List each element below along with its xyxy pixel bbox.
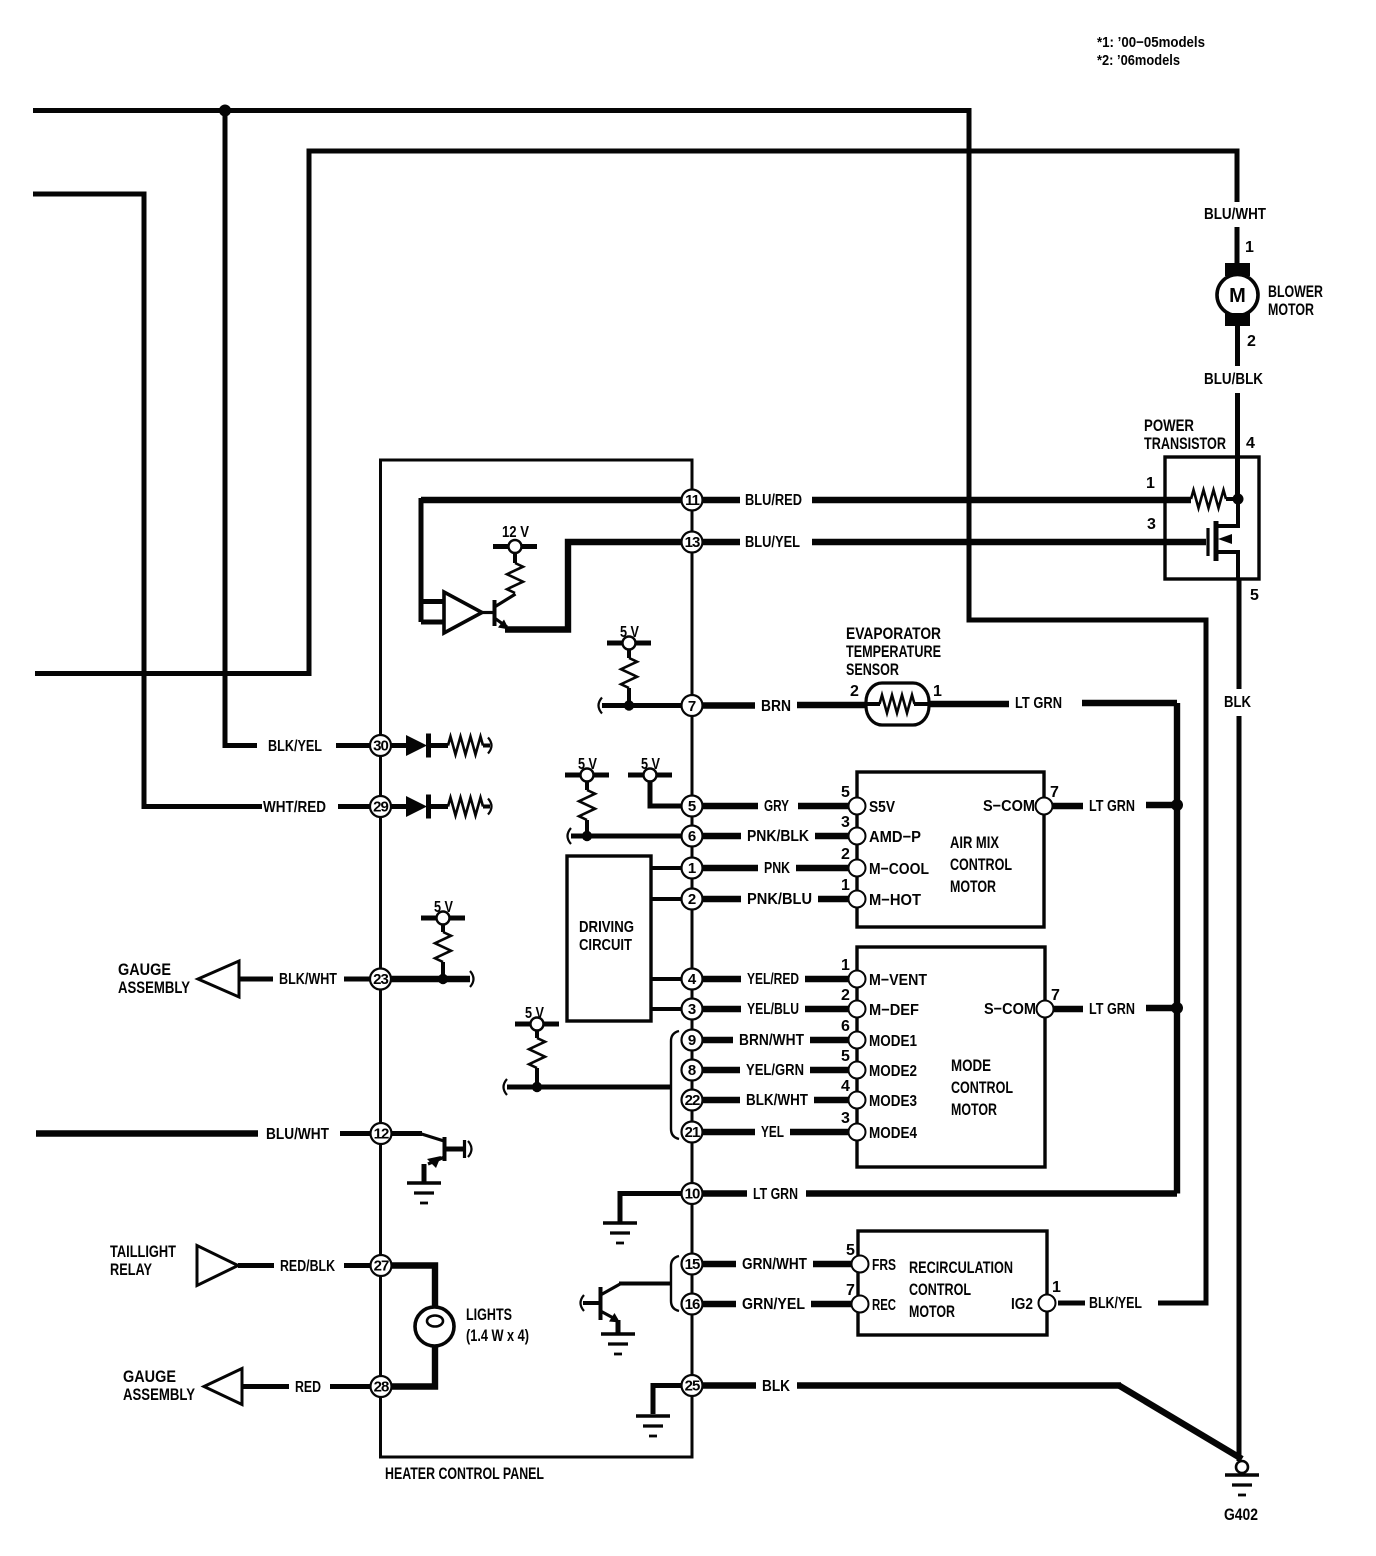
supply 5V d bbox=[421, 912, 465, 925]
wire branch to pin 30 bbox=[225, 111, 257, 746]
wire triangle2 to RED bbox=[242, 1384, 289, 1389]
driving circuit box U3 bbox=[567, 856, 651, 1021]
svg-text:M−VENT: M−VENT bbox=[869, 972, 927, 989]
wire Q2 emitter to ground bbox=[422, 1164, 427, 1182]
pin 8 bbox=[682, 1060, 703, 1081]
pin 11 bbox=[682, 490, 703, 511]
supply 5V a bbox=[607, 637, 651, 650]
Q2 collector end bar bbox=[463, 1140, 466, 1158]
wire IG2 to BLK/YEL bbox=[1058, 1301, 1085, 1306]
svg-text:4: 4 bbox=[1246, 435, 1255, 452]
pin MODE1 bbox=[849, 1032, 866, 1049]
svg-text:7: 7 bbox=[1051, 987, 1060, 1004]
svg-text:BLK/WHT: BLK/WHT bbox=[746, 1092, 808, 1109]
svg-text:5: 5 bbox=[841, 1048, 850, 1065]
svg-text:11: 11 bbox=[685, 492, 700, 509]
wire R6 end bbox=[483, 744, 490, 748]
supply 5V c bbox=[628, 769, 672, 782]
svg-text:1: 1 bbox=[688, 860, 696, 877]
svg-text:RED/BLK: RED/BLK bbox=[280, 1258, 335, 1275]
svg-text:IG2: IG2 bbox=[1011, 1296, 1033, 1313]
gauge assembly triangle bbox=[198, 961, 239, 997]
wire resistor to drain node bbox=[1226, 497, 1238, 501]
gauge assembly triangle 2 bbox=[204, 1369, 242, 1405]
wire WHT/RED into pin 29 bbox=[338, 804, 370, 809]
LT GRN bus vertical bbox=[1174, 703, 1180, 1194]
pin 30 bbox=[370, 735, 391, 756]
svg-text:12: 12 bbox=[374, 1126, 389, 1143]
ground G402 bbox=[1225, 1475, 1259, 1495]
diode D2 bbox=[406, 795, 429, 819]
wire pin13 row BLU/YEL bbox=[702, 539, 1206, 545]
svg-text:4: 4 bbox=[688, 971, 697, 988]
pin 25 bbox=[682, 1375, 703, 1396]
pin REC bbox=[852, 1296, 869, 1313]
wire 5V d stem bbox=[441, 925, 445, 933]
resistor R2 bbox=[621, 658, 637, 688]
Q2 base bar bbox=[443, 1137, 447, 1161]
transistor Q1 emitter bbox=[495, 618, 508, 627]
svg-text:LT GRN: LT GRN bbox=[753, 1186, 798, 1203]
supply 12V bbox=[493, 540, 537, 553]
sensor resistor element bbox=[880, 695, 915, 713]
svg-text:HEATER CONTROL PANEL: HEATER CONTROL PANEL bbox=[385, 1464, 544, 1483]
wire pin4 row YEL/RED bbox=[702, 976, 849, 982]
mosfet source bbox=[1216, 552, 1238, 579]
wire pin5 row GRY bbox=[702, 803, 849, 809]
svg-text:21: 21 bbox=[685, 1124, 700, 1141]
svg-text:LT GRN: LT GRN bbox=[1089, 798, 1135, 815]
resistor R7 bbox=[448, 798, 483, 816]
junction pin23 node bbox=[438, 974, 448, 984]
resistor R1 12V bbox=[507, 563, 523, 593]
pin M-VENT bbox=[849, 971, 866, 988]
pin 3 bbox=[682, 999, 703, 1020]
pin S-COM mode bbox=[1037, 1001, 1054, 1018]
wire pin10 row LT GRN bbox=[702, 1190, 1177, 1196]
bracket pins 9-21 bbox=[671, 1031, 679, 1139]
wire pin6 left segment bbox=[571, 834, 682, 839]
svg-text:3: 3 bbox=[841, 1110, 850, 1127]
svg-text:7: 7 bbox=[1050, 784, 1059, 801]
svg-text:LT GRN: LT GRN bbox=[1089, 1001, 1135, 1018]
svg-text:CIRCUIT: CIRCUIT bbox=[579, 937, 632, 954]
svg-text:4: 4 bbox=[841, 1078, 850, 1095]
wire pin11 to comparator input bbox=[421, 497, 682, 503]
pin IG2 bbox=[1039, 1295, 1056, 1312]
wire comparator input drop bbox=[419, 498, 424, 622]
wire pin27 to lamp bbox=[392, 1266, 435, 1309]
svg-text:22: 22 bbox=[685, 1092, 700, 1109]
svg-text:RELAY: RELAY bbox=[110, 1260, 152, 1279]
pin S-COM air mix bbox=[1036, 798, 1053, 815]
svg-text:BLOWER: BLOWER bbox=[1268, 282, 1323, 301]
pin 23 bbox=[370, 969, 391, 990]
wire pin7 left segment bbox=[602, 703, 682, 708]
wire pin9 row BRN/WHT bbox=[702, 1037, 849, 1043]
wire pin25 to ground bbox=[653, 1383, 682, 1414]
svg-text:13: 13 bbox=[685, 534, 700, 551]
wire RED/BLK to pin27 bbox=[344, 1263, 371, 1268]
mosfet drain bbox=[1216, 499, 1238, 526]
air mix control motor box M1 bbox=[857, 772, 1044, 927]
wire BLK/WHT to pin23 bbox=[344, 977, 370, 982]
svg-text:AMD−P: AMD−P bbox=[869, 829, 921, 846]
svg-text:YEL/RED: YEL/RED bbox=[747, 971, 799, 988]
mosfet arrow bbox=[1218, 534, 1232, 544]
svg-text:MODE3: MODE3 bbox=[869, 1093, 917, 1110]
junction LT GRN bus 1 bbox=[1171, 799, 1183, 811]
svg-text:5: 5 bbox=[841, 784, 850, 801]
wire lamp to pin28 bbox=[392, 1345, 435, 1387]
wire pin21 row YEL bbox=[702, 1129, 849, 1135]
svg-text:1: 1 bbox=[1245, 239, 1254, 256]
wire pin1 row PNK bbox=[702, 865, 849, 871]
svg-text:2: 2 bbox=[841, 846, 850, 863]
Q3 base bar bbox=[599, 1287, 603, 1320]
svg-text:27: 27 bbox=[374, 1258, 389, 1275]
svg-text:TRANSISTOR: TRANSISTOR bbox=[1144, 434, 1226, 453]
pin 16 bbox=[682, 1294, 703, 1315]
pin 10 bbox=[682, 1183, 703, 1204]
Q2 emitter arrow bbox=[427, 1156, 441, 1168]
pin 12 bbox=[371, 1123, 392, 1144]
wire Q3 base bbox=[583, 1301, 600, 1305]
svg-text:1: 1 bbox=[1146, 475, 1155, 492]
ground Q2 bbox=[407, 1183, 441, 1203]
svg-text:MOTOR: MOTOR bbox=[909, 1302, 955, 1321]
svg-text:25: 25 bbox=[685, 1378, 700, 1395]
wire pin7 row BRN bbox=[702, 702, 866, 709]
wire BLU/WHT feed to pin 12 bbox=[36, 1130, 258, 1136]
transistor Q1 collector bbox=[495, 594, 516, 607]
svg-text:BLK/WHT: BLK/WHT bbox=[279, 971, 337, 988]
svg-text:MOTOR: MOTOR bbox=[950, 877, 996, 896]
svg-text:MODE: MODE bbox=[951, 1056, 991, 1075]
svg-text:YEL: YEL bbox=[761, 1124, 784, 1141]
tick pin7 wire end bbox=[599, 698, 603, 714]
resistor R3 bbox=[579, 790, 595, 820]
wire pin15 row GRN/WHT bbox=[702, 1261, 852, 1267]
svg-text:GRY: GRY bbox=[764, 798, 789, 815]
pin 29 bbox=[370, 796, 391, 817]
wire LT GRN to bus bbox=[1082, 700, 1177, 706]
junction LT GRN bus 2 bbox=[1171, 1002, 1183, 1014]
svg-text:BLK/YEL: BLK/YEL bbox=[268, 738, 322, 755]
supply 5V e bbox=[515, 1018, 559, 1031]
blower motor M bbox=[1217, 275, 1258, 316]
tick R6 end bbox=[488, 738, 492, 754]
tick Q3 base bbox=[581, 1295, 585, 1311]
svg-text:BLU/YEL: BLU/YEL bbox=[745, 534, 800, 551]
svg-text:5: 5 bbox=[1250, 587, 1259, 604]
wire Q3 emitter to ground bbox=[616, 1320, 621, 1333]
svg-text:3: 3 bbox=[1147, 516, 1156, 533]
bracket pins 15-16 bbox=[671, 1256, 679, 1311]
tick Q2 collector bbox=[468, 1141, 472, 1157]
tick bracket wire end bbox=[504, 1079, 508, 1095]
wire sensor to LT GRN bbox=[929, 701, 1009, 707]
svg-text:FRS: FRS bbox=[872, 1257, 896, 1274]
svg-text:ASSEMBLY: ASSEMBLY bbox=[118, 978, 191, 997]
taillight relay triangle bbox=[197, 1246, 238, 1286]
svg-text:SENSOR: SENSOR bbox=[846, 660, 899, 679]
ground G402 circle bbox=[1236, 1461, 1248, 1473]
wire BLK diagonal to G402 bbox=[1119, 1386, 1242, 1460]
pin 5 bbox=[682, 796, 703, 817]
svg-text:PNK/BLK: PNK/BLK bbox=[747, 828, 809, 845]
svg-text:7: 7 bbox=[688, 698, 696, 715]
svg-text:1: 1 bbox=[1052, 1279, 1061, 1296]
wire pin23 right segment bbox=[391, 976, 470, 982]
wire DC to pin2 bbox=[651, 897, 682, 901]
resistor R8 bbox=[435, 932, 451, 962]
Q2 emitter bbox=[428, 1157, 445, 1164]
wire Q1 emitter to pin13 bbox=[505, 542, 682, 630]
svg-text:BLU/BLK: BLU/BLK bbox=[1204, 371, 1263, 388]
svg-text:BLU/WHT: BLU/WHT bbox=[1204, 206, 1266, 223]
pin 9 bbox=[682, 1030, 703, 1051]
svg-text:9: 9 bbox=[688, 1032, 696, 1049]
wire 5V a stem bbox=[627, 650, 631, 659]
svg-text:12 V: 12 V bbox=[502, 524, 529, 541]
wire R8 to node bbox=[441, 962, 445, 979]
ground pin10 bbox=[603, 1223, 637, 1243]
pin MODE2 bbox=[849, 1062, 866, 1079]
svg-text:REC: REC bbox=[872, 1297, 896, 1314]
supply 5V b bbox=[565, 769, 609, 782]
wire left feed to pin 29 bbox=[33, 194, 262, 807]
svg-text:6: 6 bbox=[688, 828, 696, 845]
svg-text:CONTROL: CONTROL bbox=[951, 1078, 1013, 1097]
wire pin16 row GRN/YEL bbox=[702, 1301, 852, 1307]
svg-text:RED: RED bbox=[295, 1379, 321, 1396]
wire pin6 row PNK/BLK bbox=[702, 833, 849, 839]
pin M-DEF bbox=[849, 1001, 866, 1018]
svg-text:BLU/RED: BLU/RED bbox=[745, 492, 802, 509]
pin 2 bbox=[682, 889, 703, 910]
svg-text:23: 23 bbox=[373, 971, 388, 988]
junction pin6 node bbox=[582, 831, 592, 841]
sensor body RT1 bbox=[866, 683, 929, 725]
pin AMD-P bbox=[849, 828, 866, 845]
wire DC to pin3 bbox=[651, 1007, 682, 1011]
svg-text:30: 30 bbox=[373, 738, 388, 755]
svg-text:TAILLIGHT: TAILLIGHT bbox=[110, 1242, 176, 1261]
op-amp U1 triangle bbox=[444, 592, 482, 633]
svg-text:15: 15 bbox=[685, 1256, 700, 1273]
ground Q3 bbox=[601, 1334, 635, 1354]
pin 27 bbox=[371, 1255, 392, 1276]
svg-text:BLK/YEL: BLK/YEL bbox=[1089, 1295, 1142, 1312]
svg-text:BRN/WHT: BRN/WHT bbox=[739, 1032, 804, 1049]
wire D1 to resistor bbox=[431, 743, 448, 748]
pin S5V bbox=[849, 798, 866, 815]
wire pin30 to diode bbox=[391, 743, 406, 748]
svg-text:3: 3 bbox=[841, 814, 850, 831]
pin 28 bbox=[371, 1376, 392, 1397]
wire 12V stem bbox=[513, 553, 517, 563]
svg-text:CONTROL: CONTROL bbox=[950, 855, 1012, 874]
svg-text:*1: ’00−05models: *1: ’00−05models bbox=[1097, 34, 1205, 51]
svg-text:EVAPORATOR: EVAPORATOR bbox=[846, 624, 941, 643]
tick pin23 wire end bbox=[470, 971, 474, 987]
pin M-COOL bbox=[849, 860, 866, 877]
wire apex to base bbox=[482, 611, 494, 614]
svg-text:2: 2 bbox=[688, 891, 696, 908]
wire pin2 row PNK/BLU bbox=[702, 896, 849, 902]
wire LT GRN2 to bus junction bbox=[1146, 1005, 1177, 1011]
pin 15 bbox=[682, 1254, 703, 1275]
junction bracket node bbox=[532, 1082, 542, 1092]
sensor interior leads bbox=[866, 702, 929, 706]
pin 6 bbox=[682, 826, 703, 847]
wire RED to pin28 bbox=[330, 1384, 371, 1389]
svg-text:6: 6 bbox=[841, 1018, 850, 1035]
tick pin6 wire end bbox=[568, 828, 572, 844]
svg-text:BRN: BRN bbox=[761, 698, 791, 715]
wire 5V e stem bbox=[535, 1031, 539, 1039]
wire triangle to BLK/WHT bbox=[239, 977, 273, 982]
wire R2 to node bbox=[627, 688, 631, 706]
Q1 emitter arrow bbox=[498, 620, 509, 630]
svg-text:2: 2 bbox=[841, 987, 850, 1004]
svg-text:LT GRN: LT GRN bbox=[1015, 695, 1062, 712]
svg-text:PNK/BLU: PNK/BLU bbox=[747, 891, 812, 908]
Q3 emitter bbox=[601, 1311, 618, 1320]
wire pin29 to diode bbox=[391, 804, 406, 809]
svg-text:MODE4: MODE4 bbox=[869, 1125, 917, 1142]
junction drain node bbox=[1233, 494, 1244, 505]
diode D1 bbox=[406, 734, 429, 758]
svg-text:BLU/WHT: BLU/WHT bbox=[266, 1126, 329, 1143]
pin 1 bbox=[682, 858, 703, 879]
pin 21 bbox=[682, 1122, 703, 1143]
svg-text:1: 1 bbox=[841, 877, 850, 894]
motor terminal top bbox=[1225, 263, 1250, 276]
ground pin25 bbox=[636, 1416, 670, 1436]
svg-text:MODE2: MODE2 bbox=[869, 1063, 917, 1080]
svg-text:GAUGE: GAUGE bbox=[123, 1367, 176, 1386]
svg-text:16: 16 bbox=[685, 1296, 700, 1313]
svg-text:2: 2 bbox=[1247, 333, 1256, 350]
recirculation control motor box M3 bbox=[858, 1231, 1047, 1335]
mosfet gate bar bbox=[1206, 528, 1209, 556]
wire LT GRN to bus junction bbox=[1146, 802, 1177, 808]
wire DC to pin1 bbox=[651, 866, 682, 870]
wire pin25 row BLK bbox=[703, 1382, 1121, 1388]
svg-text:G402: G402 bbox=[1224, 1505, 1258, 1524]
svg-text:GRN/YEL: GRN/YEL bbox=[742, 1296, 805, 1313]
svg-text:ASSEMBLY: ASSEMBLY bbox=[123, 1385, 196, 1404]
resistor in power transistor bbox=[1191, 490, 1226, 508]
svg-text:S−COM: S−COM bbox=[984, 1001, 1036, 1018]
Q2 base lead bbox=[420, 1134, 444, 1142]
svg-text:MOTOR: MOTOR bbox=[1268, 300, 1314, 319]
svg-text:RECIRCULATION: RECIRCULATION bbox=[909, 1258, 1013, 1277]
wire into pin 12 bbox=[340, 1131, 371, 1136]
lamp filament bbox=[427, 1316, 443, 1327]
wire R7 end bbox=[483, 805, 490, 809]
svg-text:M−COOL: M−COOL bbox=[869, 861, 929, 878]
wire top feed to IG2 bus bbox=[33, 111, 1206, 1304]
Q3 collector bbox=[601, 1284, 622, 1296]
Q2 collector bbox=[445, 1147, 465, 1152]
power transistor box U2 bbox=[1165, 457, 1259, 579]
svg-text:YEL/GRN: YEL/GRN bbox=[746, 1062, 804, 1079]
wire pin22 row BLK/WHT bbox=[702, 1097, 849, 1103]
wire motor to power transistor bbox=[1235, 326, 1240, 460]
lamp LIGHTS bbox=[415, 1307, 454, 1346]
wire pin10 to ground bbox=[620, 1191, 682, 1222]
wire BLU/WHT feed to blower motor bbox=[35, 151, 1237, 674]
wire 5V to bracket bbox=[507, 1085, 671, 1090]
tick R7 end bbox=[488, 799, 492, 815]
svg-text:S5V: S5V bbox=[869, 799, 895, 816]
svg-text:LIGHTS: LIGHTS bbox=[466, 1305, 512, 1324]
wire pin3 row YEL/BLU bbox=[702, 1006, 849, 1012]
wire S-COM2 to LT GRN bbox=[1054, 1006, 1083, 1012]
mosfet channel bar bbox=[1214, 521, 1219, 561]
svg-text:WHT/RED: WHT/RED bbox=[263, 799, 326, 816]
pin 13 bbox=[682, 532, 703, 553]
pin M-HOT bbox=[849, 891, 866, 908]
wire BLK bus to G402 bbox=[1237, 579, 1242, 1461]
svg-text:M−HOT: M−HOT bbox=[869, 892, 921, 909]
wire pin12 to Q2 bbox=[392, 1131, 423, 1136]
pin 22 bbox=[682, 1090, 703, 1111]
svg-text:CONTROL: CONTROL bbox=[909, 1280, 971, 1299]
svg-text:1: 1 bbox=[841, 957, 850, 974]
Q3 emitter arrow bbox=[609, 1313, 620, 1323]
svg-text:MODE1: MODE1 bbox=[869, 1033, 917, 1050]
svg-text:29: 29 bbox=[373, 799, 388, 816]
svg-text:BLK: BLK bbox=[762, 1378, 790, 1395]
svg-text:PNK: PNK bbox=[764, 860, 790, 877]
wire motor feed into box bbox=[1235, 457, 1240, 499]
svg-text:5: 5 bbox=[688, 798, 696, 815]
svg-text:M: M bbox=[1229, 285, 1246, 307]
svg-text:(1.4 W x 4): (1.4 W x 4) bbox=[466, 1326, 529, 1345]
wire S-COM to LT GRN bbox=[1053, 803, 1083, 809]
pin MODE4 bbox=[849, 1124, 866, 1141]
svg-text:M−DEF: M−DEF bbox=[869, 1002, 919, 1019]
wire pin8 row YEL/GRN bbox=[702, 1067, 849, 1073]
wire Q3 collector to bracket bbox=[619, 1282, 671, 1286]
wire BLK/YEL into pin 30 bbox=[336, 743, 370, 748]
svg-text:TEMPERATURE: TEMPERATURE bbox=[846, 642, 941, 661]
svg-text:2: 2 bbox=[850, 683, 859, 700]
pin MODE3 bbox=[849, 1092, 866, 1109]
svg-text:7: 7 bbox=[846, 1282, 855, 1299]
svg-text:GAUGE: GAUGE bbox=[118, 960, 171, 979]
junction pin7 node bbox=[624, 700, 634, 710]
wire triangle to RED/BLK bbox=[238, 1263, 274, 1268]
svg-text:BLK: BLK bbox=[1224, 694, 1251, 711]
pin 7 bbox=[682, 695, 703, 716]
svg-text:S−COM: S−COM bbox=[983, 798, 1035, 815]
comparator input stubs bbox=[421, 602, 444, 623]
wire DC to pin4 bbox=[651, 977, 682, 981]
svg-text:28: 28 bbox=[374, 1379, 389, 1396]
mode control motor box M2 bbox=[857, 947, 1045, 1167]
junction top feed bbox=[219, 105, 231, 117]
HEATER CONTROL PANEL box bbox=[381, 460, 693, 1457]
svg-text:YEL/BLU: YEL/BLU bbox=[747, 1001, 799, 1018]
wire 5V b stem bbox=[585, 782, 589, 791]
svg-text:3: 3 bbox=[688, 1001, 696, 1018]
wire 5V c to pin5 bbox=[650, 782, 682, 807]
